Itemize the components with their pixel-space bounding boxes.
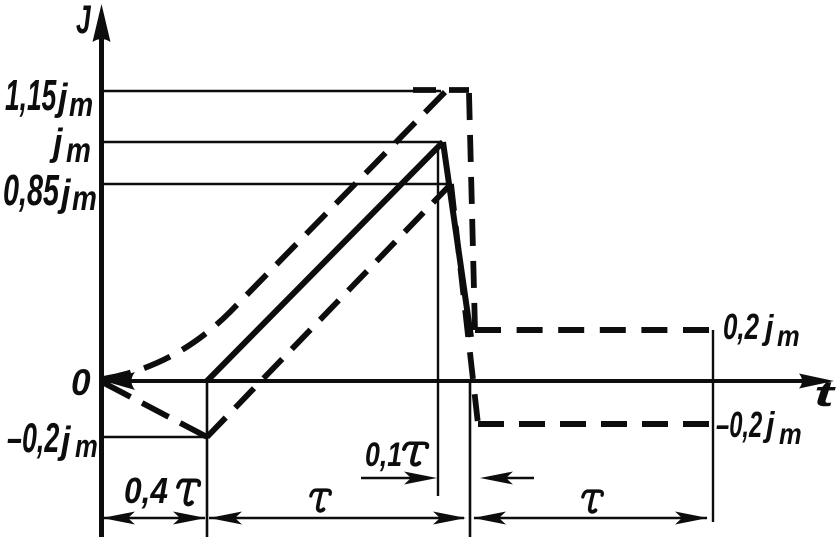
lower envelope dashed -0.2jm shelf bbox=[478, 421, 709, 427]
extension line at 0.4tau bbox=[206, 381, 209, 537]
svg-text:m: m bbox=[75, 429, 98, 464]
svg-text:0: 0 bbox=[71, 361, 91, 403]
label tau (second period) bbox=[583, 491, 603, 512]
svg-text:t: t bbox=[814, 374, 837, 414]
label tau (first period) bbox=[311, 490, 331, 511]
svg-text:m: m bbox=[72, 178, 97, 218]
lower envelope dashed fall bbox=[451, 184, 478, 424]
arrowhead at origin pointing left bbox=[104, 372, 135, 390]
upper envelope dashed rise bbox=[103, 91, 446, 379]
solid ramp rise bbox=[207, 142, 443, 381]
J axis (vertical) bbox=[99, 14, 104, 537]
svg-text:0,2: 0,2 bbox=[723, 307, 759, 347]
svg-text:–0,2: –0,2 bbox=[716, 405, 762, 445]
thin reference line -0.2jm left bbox=[101, 436, 207, 438]
svg-text:0,1: 0,1 bbox=[365, 436, 402, 474]
extension line at end of second period bbox=[712, 330, 714, 522]
upper envelope dashed top at 1.15jm bbox=[413, 87, 469, 93]
svg-text:0,85: 0,85 bbox=[3, 165, 60, 215]
dimension pointer 0.1tau right bbox=[490, 477, 534, 480]
svg-text:0,4: 0,4 bbox=[124, 471, 168, 511]
svg-text:m: m bbox=[69, 85, 93, 124]
thin reference line 1.15jm bbox=[101, 90, 441, 92]
svg-text:m: m bbox=[777, 319, 800, 352]
t axis arrowhead bbox=[799, 374, 834, 389]
upper envelope dashed +0.2jm shelf bbox=[475, 327, 709, 333]
lower envelope dashed rise bbox=[207, 184, 451, 437]
extension line at end of fall bbox=[469, 383, 472, 537]
thin reference line jm bbox=[101, 141, 441, 144]
svg-text:1,15: 1,15 bbox=[5, 70, 57, 120]
solid ramp fall bbox=[443, 142, 471, 337]
extension line at peak (0.1tau left) bbox=[437, 145, 439, 496]
svg-text:m: m bbox=[779, 417, 802, 450]
dimension pointer 0.1tau left bbox=[361, 477, 425, 480]
svg-text:m: m bbox=[66, 130, 91, 170]
dimension line first tau bbox=[209, 517, 464, 520]
dimension line second tau bbox=[474, 517, 707, 520]
svg-text:–0,2: –0,2 bbox=[7, 415, 60, 461]
thin reference line 0.85jm bbox=[101, 183, 447, 185]
upper envelope dashed fall bbox=[469, 93, 475, 330]
lower envelope dashed dip to -0.2jm bbox=[104, 383, 207, 437]
svg-text:J: J bbox=[76, 0, 92, 42]
dimension line 0.4tau bbox=[103, 517, 205, 520]
t axis (horizontal) bbox=[99, 379, 820, 383]
J axis arrowhead bbox=[93, 4, 111, 42]
